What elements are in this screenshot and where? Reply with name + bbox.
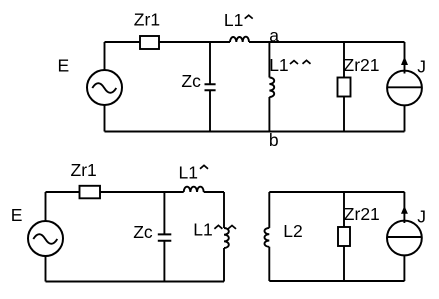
caret 1 of L1^^ (bottom) (214, 225, 222, 228)
svg-text:E: E (58, 55, 70, 75)
wire Zr21 branch lower (top circuit) (343, 97, 345, 132)
svg-text:Zc: Zc (181, 71, 201, 91)
wire top-circuit left vertical upper (104, 42, 106, 70)
wire Zc branch upper (top circuit) (209, 42, 211, 84)
wire top-circuit top rail right part (249, 41, 405, 43)
resistor Zr1 (top) (140, 36, 159, 49)
caret 2 of L1^^ (top) (303, 60, 311, 63)
wire top-circuit top rail left part (105, 41, 231, 43)
resistor Zr21 (top) (338, 78, 351, 97)
wire Zc branch lower (top circuit) (209, 90, 211, 131)
svg-text:E: E (11, 205, 23, 225)
wire bottom-right right vertical lower (403, 256, 405, 281)
wire bottom-left bottom rail (46, 281, 225, 283)
wire bottom-left left vertical lower (45, 256, 47, 282)
svg-text:Zr1: Zr1 (71, 160, 97, 180)
arrow of J (bottom) (401, 206, 408, 214)
wire current source top stub (top circuit) (404, 42, 406, 74)
caret of L1^ (top) (245, 15, 253, 18)
wire bottom-left top rail right part (204, 191, 224, 193)
voltage source E (top) (87, 70, 122, 105)
wire L1^^ branch lower (top circuit) (268, 97, 270, 132)
svg-text:L1: L1 (193, 219, 212, 239)
svg-text:Zr21: Zr21 (344, 55, 380, 75)
svg-text:L1: L1 (269, 55, 288, 75)
wire bottom-left right vertical lower (223, 248, 225, 282)
inductor L1^ (bottom) (184, 187, 204, 192)
wire top-circuit right vertical lower (404, 106, 406, 132)
wire bottom-right left vertical upper (268, 192, 270, 228)
svg-text:L1: L1 (179, 162, 198, 182)
wire bottom-left right vertical upper (223, 192, 225, 228)
wire Zr21 branch upper (bottom circuit) (343, 192, 345, 227)
svg-text:a: a (269, 25, 279, 45)
wire Zc branch lower (bottom circuit) (163, 241, 165, 282)
wire L1^^ branch upper (top circuit) (268, 42, 270, 78)
caret 2 of L1^^ (bottom) (228, 226, 236, 229)
wire top-circuit bottom rail (105, 131, 405, 133)
svg-text:b: b (269, 130, 279, 150)
inductor L1^ (top) (230, 37, 249, 42)
caret 1 of L1^^ (top) (290, 61, 298, 64)
resistor Zr1 (bottom) (80, 186, 101, 199)
current source J (top) (387, 71, 422, 106)
wire bottom-left top rail left part (46, 191, 184, 193)
wire top-circuit left vertical lower (104, 105, 106, 132)
wire bottom-right top rail (269, 191, 404, 193)
svg-text:J: J (417, 57, 426, 77)
inductor L1^^ (top, vertical) (269, 78, 274, 98)
capacitor Zc (bottom) (158, 234, 172, 240)
capacitor Zc (top) (205, 84, 216, 90)
svg-text:L2: L2 (283, 221, 302, 241)
wire Zr21 branch lower (bottom circuit) (343, 246, 345, 281)
current source J (bottom) (387, 221, 422, 256)
caret of L1^ (bottom) (200, 165, 208, 168)
wire Zc branch upper (bottom circuit) (163, 192, 165, 234)
svg-text:L1: L1 (224, 10, 243, 30)
inductor L1^^ (bottom, vertical) (224, 228, 229, 248)
wire Zr21 branch upper (top circuit) (343, 42, 345, 78)
svg-text:J: J (417, 206, 426, 226)
wire current source top stub (bottom circuit) (403, 192, 405, 223)
wire bottom-right left vertical lower (268, 247, 270, 281)
svg-text:Zr21: Zr21 (344, 204, 380, 224)
svg-text:Zr1: Zr1 (134, 10, 160, 30)
wire bottom-right bottom rail (269, 280, 404, 282)
voltage source E (bottom) (28, 221, 63, 256)
resistor Zr21 (bottom) (338, 227, 350, 246)
arrow of J (top) (401, 57, 408, 66)
svg-text:Zc: Zc (133, 222, 153, 242)
inductor L2 (264, 228, 269, 247)
wire bottom-left left vertical upper (45, 192, 47, 221)
